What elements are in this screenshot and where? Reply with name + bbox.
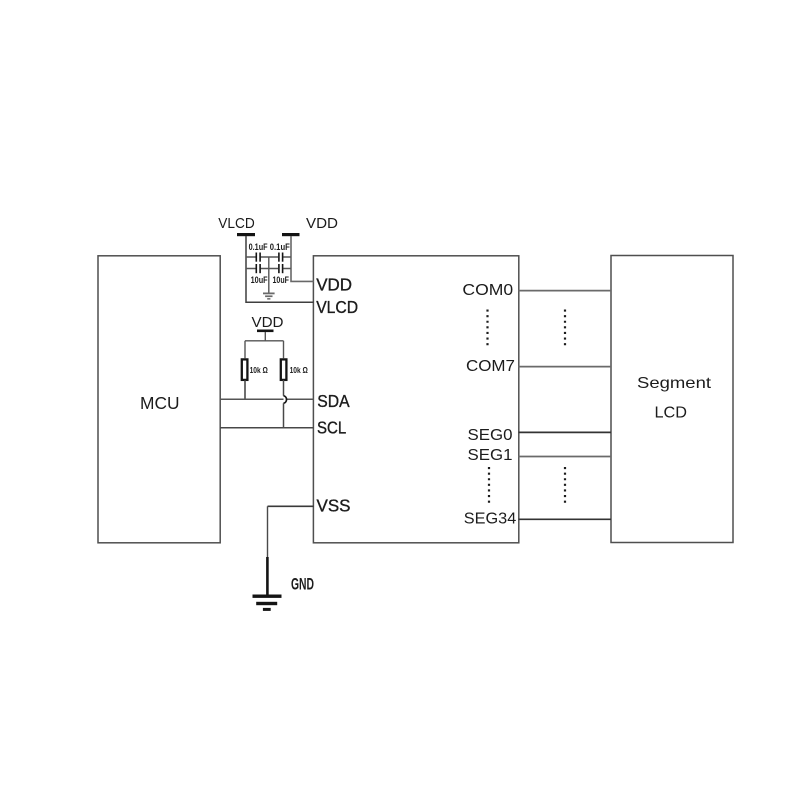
svg-text:VLCD: VLCD (218, 215, 255, 232)
Segment LCD block (611, 256, 733, 543)
svg-text:VSS: VSS (317, 496, 351, 516)
power symbol VLCD (top rail) (218, 215, 255, 236)
wire COM7 (519, 366, 612, 368)
svg-text:SEG0: SEG0 (468, 427, 513, 444)
wire decoupling row 1 (246, 256, 291, 258)
svg-text:Segment: Segment (637, 375, 712, 392)
wire VSS to ground (267, 506, 269, 558)
wire VDD rail to VDD pin (291, 236, 314, 281)
svg-text:COM0: COM0 (462, 282, 513, 299)
svg-text:GND: GND (291, 575, 314, 594)
svg-text:MCU: MCU (140, 393, 180, 413)
svg-text:VLCD: VLCD (316, 297, 358, 317)
wire capacitor midpoint to ground (268, 257, 270, 293)
capacitor C3 10uF (256, 264, 261, 273)
svg-text:LCD: LCD (655, 405, 688, 422)
svg-text:0.1uF: 0.1uF (249, 242, 268, 253)
svg-text:SDA: SDA (317, 391, 350, 411)
wire SEG0 (519, 431, 612, 433)
ellipsis SEG wires between blocks (564, 467, 566, 505)
capacitor C2 0.1uF (278, 253, 283, 262)
svg-text:COM7: COM7 (466, 358, 515, 375)
wire SEG34 (519, 518, 612, 520)
resistor R2 10kOhm (281, 359, 287, 380)
svg-text:10uF: 10uF (273, 275, 290, 286)
svg-text:SEG34: SEG34 (464, 511, 517, 528)
ellipsis COM pins inside IC (486, 310, 488, 348)
wire to resistor R1 (244, 341, 246, 358)
svg-text:VDD: VDD (306, 215, 338, 232)
svg-text:10k Ω: 10k Ω (250, 366, 269, 375)
wire VLCD rail to VLCD pin (246, 236, 314, 302)
svg-text:SEG1: SEG1 (468, 447, 513, 464)
power symbol VDD (top rail) (282, 215, 338, 236)
wire R1 to SDA (244, 380, 246, 399)
ellipsis SEG pins inside IC (488, 467, 490, 505)
wire SEG1 (519, 456, 612, 458)
capacitor C4 10uF (278, 264, 283, 273)
svg-text:10k Ω: 10k Ω (290, 366, 309, 375)
capacitor C1 0.1uF (256, 253, 261, 262)
wire R2 to SCL lower segment (283, 403, 285, 428)
LCD driver IC U1 (313, 256, 518, 543)
power symbol VDD (pull-up rail) (252, 314, 284, 332)
wire VSS (268, 505, 314, 507)
wire to resistor R2 (283, 341, 285, 358)
ellipsis COM wires between blocks (564, 310, 566, 348)
svg-text:SCL: SCL (317, 418, 346, 438)
ground (decoupling midpoint) (263, 293, 275, 300)
wire SDA (220, 398, 314, 400)
wire R2 to SCL upper segment (283, 380, 285, 396)
svg-text:0.1uF: 0.1uF (270, 242, 290, 253)
wire pull-up branch (245, 340, 284, 342)
MCU block (98, 256, 220, 543)
svg-text:VDD: VDD (252, 314, 284, 331)
wire hop over SDA (284, 396, 287, 404)
wire decoupling row 2 (246, 268, 291, 270)
svg-text:10uF: 10uF (251, 275, 268, 286)
ground GND (253, 595, 282, 611)
resistor R1 10kOhm (242, 359, 248, 380)
wire VDD rail stub (264, 332, 266, 341)
wire SCL (220, 427, 314, 429)
wire COM0 (519, 290, 612, 292)
svg-text:VDD: VDD (316, 274, 352, 294)
ground stem (266, 557, 269, 595)
